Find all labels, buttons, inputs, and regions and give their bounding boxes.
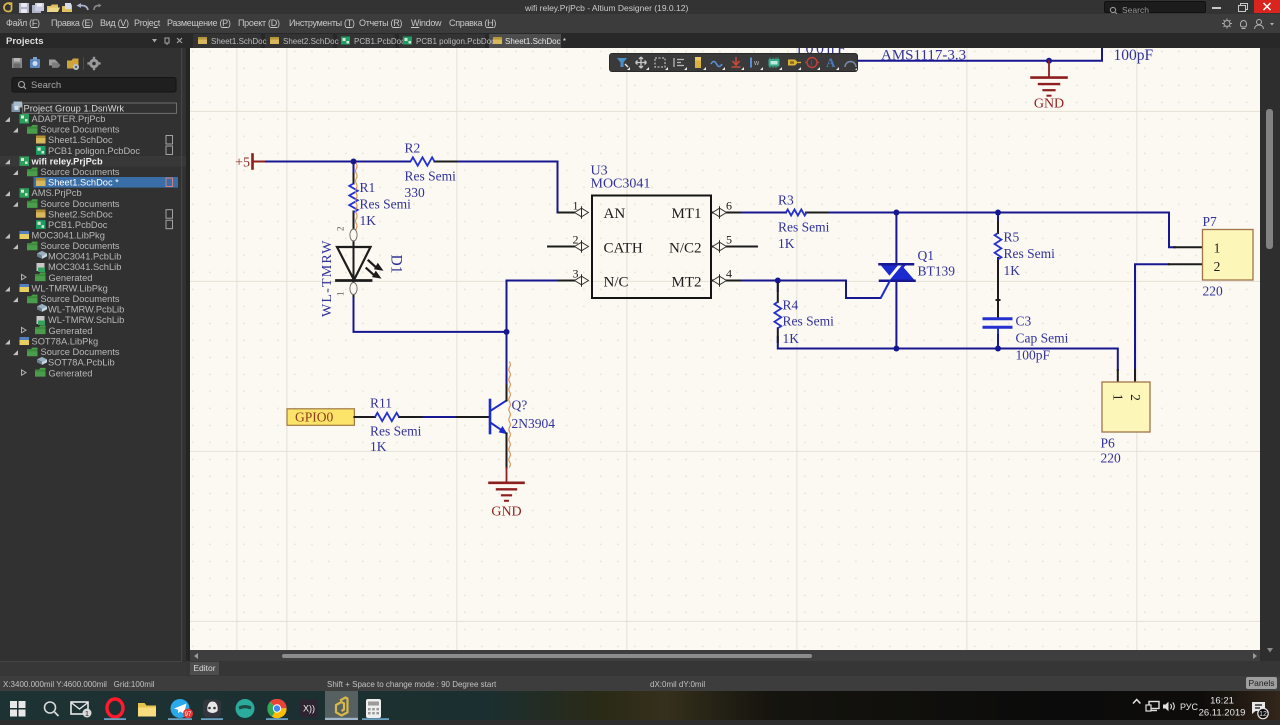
svg-text:w: w [753,60,760,67]
svg-text:WL-TMRW.PcbLib: WL-TMRW.PcbLib [48,305,124,315]
opto-triac U3 MOC3041 [548,164,757,299]
net label GPIO0 [287,409,354,426]
ground GND (top) [1032,61,1067,112]
svg-text:SOT78A.LibPkg: SOT78A.LibPkg [32,337,99,347]
schematic canvas [190,48,1260,650]
svg-text:MT1: MT1 [672,206,702,222]
svg-text:5: 5 [726,233,732,247]
resistor R2 [405,141,457,201]
tray [1133,700,1140,704]
svg-text:R2: R2 [405,141,421,156]
svg-text:R1: R1 [360,180,376,195]
svg-text:MOC3041: MOC3041 [591,177,651,192]
svg-text:MOC3041.PcbLib: MOC3041.PcbLib [48,252,121,262]
status bar [0,676,1280,691]
svg-text:Res Semi: Res Semi [360,197,412,212]
svg-text:1K: 1K [370,439,387,454]
svg-text:1K: 1K [783,331,800,346]
telegram [171,699,190,718]
svg-text:1: 1 [1111,394,1126,401]
svg-text:Res Semi: Res Semi [1004,246,1056,261]
row focus box [23,103,177,113]
svg-text:R11: R11 [370,396,392,411]
wire U3 pin6 to P7 [742,213,1175,248]
svg-text:Source Documents: Source Documents [41,241,120,251]
svg-text:SOT78A.PcbLib: SOT78A.PcbLib [48,358,115,368]
pin 6 [713,199,733,219]
compile-error squiggle collector [509,362,511,467]
pin 4 [713,267,733,287]
svg-text:Sheet2.SchDoc: Sheet2.SchDoc [48,209,113,219]
junction top GND node [1046,58,1052,64]
svg-text:Generated: Generated [49,368,93,378]
power port +5 [235,155,267,171]
svg-text:РУС: РУС [1180,702,1199,712]
resistor R4 [774,284,834,347]
svg-text:N/C2: N/C2 [669,241,702,257]
panel toolbar icons [12,57,101,70]
explorer [138,703,156,717]
svg-text:PCB1.PcbDoc: PCB1.PcbDoc [354,37,405,46]
resistor R1 [349,174,411,228]
floating utility toolbar [610,54,857,71]
svg-text:Cap Semi: Cap Semi [1016,331,1069,346]
svg-text:PCB1.PcbDoc: PCB1.PcbDoc [48,220,108,230]
svg-text:PCB1 poligon.PcbDoc: PCB1 poligon.PcbDoc [416,37,495,46]
pin 1 [573,199,589,219]
wire top rail [857,48,1102,61]
wire U3 pin4 / triac gate [742,281,881,299]
capacitor label 100pF (top right, partially cut) [1114,47,1154,64]
pin 5 [713,233,733,253]
window title bar [0,0,1280,14]
svg-text:Q?: Q? [512,398,528,413]
wire +5 rail to U3 pin 1 [266,162,563,213]
svg-text:GND: GND [1034,97,1064,112]
svg-text:PCB1 poligon.PcbDoc: PCB1 poligon.PcbDoc [48,146,140,156]
running underlines [104,718,389,720]
svg-text:100pF: 100pF [1114,48,1154,64]
svg-text:Source Documents: Source Documents [41,167,120,177]
svg-text:97: 97 [185,712,192,718]
svg-text:R4: R4 [783,298,799,313]
svg-text:2: 2 [573,233,579,247]
svg-text:2: 2 [336,227,346,232]
svg-text:P6: P6 [1101,436,1116,451]
svg-text:12: 12 [1259,711,1267,718]
svg-text:AMS.PrjPcb: AMS.PrjPcb [32,188,82,198]
svg-text:MOC3041.SchLib: MOC3041.SchLib [48,262,121,272]
triac Q1 BT139 [880,248,956,298]
svg-text:WL-TMRW.LibPkg: WL-TMRW.LibPkg [32,284,108,294]
svg-text:X)): X)) [303,704,315,714]
right vertical scrollbar [1260,48,1280,661]
svg-text:N/C: N/C [604,275,629,291]
svg-text:Res Semi: Res Semi [405,169,457,184]
svg-text:CATH: CATH [604,241,643,257]
projects panel [0,48,186,676]
discord [203,700,221,718]
svg-text:16:21: 16:21 [1210,696,1234,707]
mail [71,702,88,714]
svg-text:100pF: 100pF [1016,348,1051,363]
resistor R3 [778,193,830,252]
svg-text:2: 2 [1128,394,1143,401]
LED D1 WL-TMRW [320,227,405,318]
svg-text:6: 6 [726,199,732,213]
svg-text:4: 4 [726,267,732,281]
svg-text:Sheet2.SchDoc: Sheet2.SchDoc [283,37,339,46]
connector P7 [1169,214,1253,299]
svg-text:Source Documents: Source Documents [41,125,120,135]
svg-text:2N3904: 2N3904 [512,416,556,431]
wire GPIO0 to base [421,416,457,418]
svg-text:BT139: BT139 [918,264,956,279]
svg-text:220: 220 [1203,284,1224,299]
svg-text:Res Semi: Res Semi [370,424,422,439]
svg-text:Search: Search [31,80,61,91]
wire triac MT1-MT2 vertical [895,213,897,349]
svg-text:wifi reley.PrjPcb: wifi reley.PrjPcb [31,156,103,166]
svg-text:Res Semi: Res Semi [783,314,835,329]
svg-text:R3: R3 [778,193,794,208]
svg-text:2: 2 [1214,259,1221,274]
regulator label AMS1117-3.3 [881,48,966,64]
svg-text:1: 1 [573,199,579,213]
svg-text:MOC3041.LibPkg: MOC3041.LibPkg [32,231,105,241]
svg-text:ADAPTER.PrjPcb: ADAPTER.PrjPcb [32,114,106,124]
svg-text:1K: 1K [360,213,377,228]
svg-text:Res Semi: Res Semi [778,220,830,235]
svg-text:D1: D1 [388,255,405,274]
junction MT2 node [893,346,899,352]
capacitor C3 [984,314,1069,363]
teal app [236,699,255,718]
svg-text:1: 1 [1214,241,1221,256]
junction R5 bottom [995,346,1001,352]
resistor R11 [354,396,421,455]
node cut-off capacitor label 100nF [795,41,848,58]
svg-text:Generated: Generated [49,326,93,336]
wire LED cathode to transistor collector node [354,298,507,332]
svg-text:Sheet1.SchDoc: Sheet1.SchDoc [211,37,267,46]
svg-text:AN: AN [604,206,626,222]
junction collector node [504,329,510,335]
resistor R5 [995,213,1056,349]
junction MT1 node [893,210,899,216]
svg-text:R5: R5 [1004,230,1020,245]
svg-text:i: i [810,59,812,68]
svg-text:1K: 1K [778,236,795,251]
opera [107,699,123,717]
ground GND (transistor emitter) [490,468,524,520]
connector P6 [1101,370,1151,466]
svg-text:P7: P7 [1203,214,1218,229]
chrome [268,699,287,718]
search [45,702,56,713]
windows taskbar [0,691,1280,720]
svg-text:1K: 1K [1004,263,1021,278]
start [10,701,26,717]
junction +5/R1 [351,159,357,165]
tree [0,102,186,379]
wire R4 branch [778,281,1118,371]
svg-text:Source Documents: Source Documents [41,199,120,209]
junction R4 node [775,278,781,284]
svg-text:Sheet1.SchDoc *: Sheet1.SchDoc * [505,37,566,46]
altium active tile [325,691,358,720]
svg-text:220: 220 [1101,451,1122,466]
svg-text:GPIO0: GPIO0 [295,410,334,425]
calculator [366,699,381,718]
document tab strip [0,33,1280,48]
svg-text:Project Group 1.DsnWrk: Project Group 1.DsnWrk [24,103,125,113]
wire P7 pin2 to P6 pin2 [1135,264,1169,370]
svg-text:Source Documents: Source Documents [41,347,120,357]
svg-text:WL-TMRW.SchLib: WL-TMRW.SchLib [48,315,124,325]
junction R5 top [995,210,1001,216]
search box [12,78,176,93]
wire node to U3 pin 3 [507,281,564,386]
pin 3 [573,267,589,287]
svg-text:1: 1 [85,709,89,718]
xd icon [300,700,318,718]
svg-text:A: A [826,55,836,70]
compile-error squiggle R1 [356,164,358,234]
svg-text:Q1: Q1 [918,248,935,263]
svg-text:Source Documents: Source Documents [41,294,120,304]
svg-text:1: 1 [336,292,346,297]
svg-text:MT2: MT2 [672,275,702,291]
svg-text:C3: C3 [1016,314,1032,329]
menu bar [0,14,1280,33]
pin 2 [573,233,589,253]
transistor Q? 2N3904 [457,385,555,468]
bottom horizontal scrollbar [190,650,1260,661]
svg-text:Sheet1.SchDoc *: Sheet1.SchDoc * [48,178,119,188]
svg-text:Sheet1.SchDoc: Sheet1.SchDoc [48,135,113,145]
editor tab strip [186,661,1280,676]
svg-text:Generated: Generated [49,273,93,283]
svg-text:26.11.2019: 26.11.2019 [1199,708,1246,719]
svg-text:+5: +5 [235,156,250,171]
svg-text:3: 3 [573,267,579,281]
wire R1 branch [353,162,355,175]
svg-text:WL-TMRW: WL-TMRW [320,239,335,317]
svg-text:GND: GND [491,505,521,520]
